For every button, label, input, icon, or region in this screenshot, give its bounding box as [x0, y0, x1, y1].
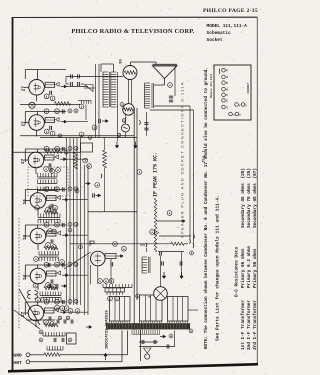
svg-text:(25): (25) — [247, 168, 252, 179]
svg-text:24: 24 — [23, 274, 28, 280]
svg-text:H: H — [226, 88, 228, 91]
svg-text:See Parts List for changes upo: See Parts List for changes upon Models 1… — [215, 195, 221, 341]
svg-text:27: 27 — [22, 86, 27, 92]
svg-text:(25): (25) — [241, 168, 246, 179]
svg-text:GND: GND — [14, 353, 23, 359]
svg-text:y: y — [245, 104, 247, 107]
svg-text:n: n — [239, 113, 241, 116]
svg-text:G: G — [226, 76, 228, 79]
svg-text:Primary 66 ohms: Primary 66 ohms — [241, 248, 246, 288]
svg-text:FRONT: FRONT — [246, 83, 250, 94]
svg-text:MODEL 111,111-A: MODEL 111,111-A — [207, 23, 248, 29]
svg-text:y: y — [239, 104, 241, 107]
svg-text:D-C Resistance Data: D-C Resistance Data — [235, 247, 240, 297]
svg-text:SPEAKER PLUG AND SOCKET CONNEC: SPEAKER PLUG AND SOCKET CONNECTIONS S-11… — [180, 81, 185, 238]
svg-text:C: C — [226, 100, 228, 103]
svg-text:ANT: ANT — [14, 360, 23, 366]
svg-text:Primary 6.2 ohms: Primary 6.2 ohms — [247, 245, 252, 288]
svg-text:24: 24 — [23, 234, 28, 240]
svg-text:27: 27 — [21, 311, 26, 317]
svg-text:Socket: Socket — [207, 37, 224, 43]
svg-text:PHILCO RADIO & TELEVISION CORP: PHILCO RADIO & TELEVISION CORP. — [71, 28, 194, 35]
svg-text:K: K — [226, 82, 228, 85]
svg-text:27: 27 — [21, 158, 26, 164]
svg-text:n: n — [233, 113, 235, 116]
svg-text:(87): (87) — [253, 168, 258, 179]
svg-text:24: 24 — [23, 199, 28, 205]
svg-text:NOTE: The connection shown be: NOTE: The connection shown between Conde… — [204, 67, 209, 349]
svg-text:27: 27 — [22, 121, 27, 127]
svg-text:P: P — [226, 70, 228, 73]
svg-text:Schematic: Schematic — [207, 30, 232, 36]
svg-text:Secondary 45 ohms: Secondary 45 ohms — [253, 183, 258, 228]
svg-text:S: S — [226, 106, 228, 109]
svg-text:F: F — [226, 94, 228, 97]
svg-text:2nd I-F Transformer: 2nd I-F Transformer — [247, 300, 252, 350]
svg-text:Fig. 1: Fig. 1 — [202, 150, 206, 162]
svg-text:3rd I-F Transformer: 3rd I-F Transformer — [253, 300, 258, 350]
svg-text:Models 111,111A: Models 111,111A — [209, 73, 213, 98]
svg-text:Secondary 45 ohms: Secondary 45 ohms — [241, 183, 246, 228]
svg-text:Primary 96 ohms: Primary 96 ohms — [253, 248, 258, 288]
svg-text:1st I-F Transformer: 1st I-F Transformer — [241, 300, 246, 350]
svg-text:30: 30 — [120, 59, 124, 64]
svg-text:IF PEAK 175 KC.: IF PEAK 175 KC. — [153, 152, 159, 197]
svg-text:Secondary 70 ohms: Secondary 70 ohms — [247, 183, 252, 228]
svg-text:PHILCO PAGE 2-35: PHILCO PAGE 2-35 — [203, 8, 258, 14]
